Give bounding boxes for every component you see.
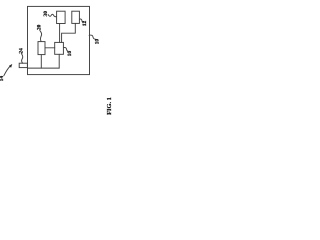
svg-text:FIG. 1: FIG. 1 xyxy=(106,97,113,115)
leader 16 xyxy=(64,47,69,51)
leader 20 xyxy=(40,30,42,41)
system boundary 10 xyxy=(28,6,90,74)
wire block20 down xyxy=(40,55,42,68)
svg-text:12: 12 xyxy=(82,21,88,27)
block 20 xyxy=(38,42,45,55)
leader 24 xyxy=(21,54,22,64)
wire block20 to block16 xyxy=(45,47,55,49)
wire block16 down xyxy=(58,54,60,68)
svg-text:10: 10 xyxy=(95,39,101,45)
arrowhead 14 xyxy=(9,64,12,68)
leader 10 xyxy=(89,35,96,39)
svg-text:16: 16 xyxy=(67,51,73,57)
arrow 14 xyxy=(4,66,11,76)
block 12 xyxy=(72,11,80,23)
block 16 xyxy=(55,42,64,54)
svg-text:30: 30 xyxy=(43,11,49,17)
wire bottom bus xyxy=(28,67,60,69)
svg-text:14: 14 xyxy=(0,76,5,82)
leader 30 xyxy=(48,14,56,17)
wire block12 to block16 xyxy=(62,23,76,42)
block 30 xyxy=(57,11,66,23)
port 24 xyxy=(19,63,27,67)
wire block30 to block16 xyxy=(59,24,61,43)
svg-text:20: 20 xyxy=(36,24,42,30)
leader 12 xyxy=(80,19,84,22)
svg-text:24: 24 xyxy=(19,48,25,54)
